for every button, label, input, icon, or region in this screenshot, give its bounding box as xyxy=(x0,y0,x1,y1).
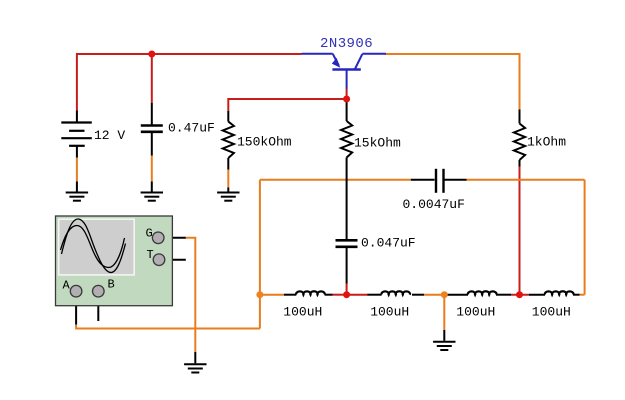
svg-text:T: T xyxy=(147,248,154,262)
svg-text:1kOhm: 1kOhm xyxy=(527,135,566,150)
svg-text:0.47uF: 0.47uF xyxy=(168,121,215,136)
svg-text:0.047uF: 0.047uF xyxy=(361,236,416,251)
svg-text:100uH: 100uH xyxy=(456,305,495,320)
svg-text:2N3906: 2N3906 xyxy=(320,36,373,52)
svg-text:100uH: 100uH xyxy=(532,305,571,320)
svg-text:100uH: 100uH xyxy=(370,305,409,320)
svg-text:0.0047uF: 0.0047uF xyxy=(403,197,465,212)
svg-text:A: A xyxy=(63,279,71,293)
svg-text:G: G xyxy=(146,227,153,241)
svg-text:B: B xyxy=(108,278,115,292)
svg-text:15kOhm: 15kOhm xyxy=(354,136,401,151)
svg-text:150kOhm: 150kOhm xyxy=(237,135,292,150)
svg-text:100uH: 100uH xyxy=(283,305,322,320)
svg-text:12 V: 12 V xyxy=(94,128,125,143)
